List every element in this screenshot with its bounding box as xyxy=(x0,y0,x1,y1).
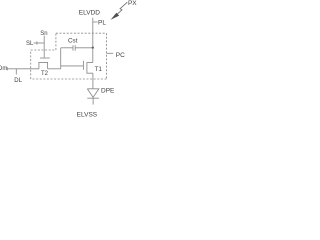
svg-text:PC: PC xyxy=(116,52,125,59)
svg-text:SL: SL xyxy=(26,41,34,47)
svg-text:T2: T2 xyxy=(41,71,49,77)
transistor T1 gate stem wire xyxy=(61,65,84,67)
diode DPE cathode bar xyxy=(87,97,99,99)
box notch vertical xyxy=(55,33,57,50)
wire diode to ELVSS xyxy=(92,98,94,104)
svg-text:Sn: Sn xyxy=(40,31,47,37)
arrow PX pointer xyxy=(114,2,127,17)
wire DL leader xyxy=(15,69,17,75)
box bottom edge xyxy=(31,78,107,80)
wire T2 drain xyxy=(48,68,61,70)
node junction dot xyxy=(92,46,94,48)
box top edge xyxy=(56,32,107,34)
wire scan line Sn vertical xyxy=(43,36,45,58)
box step edge xyxy=(31,49,56,51)
label tick SL xyxy=(36,41,38,44)
svg-text:T1: T1 xyxy=(95,67,103,73)
label tick PL xyxy=(93,21,98,23)
svg-text:Dm: Dm xyxy=(0,66,7,72)
capacitor Cst right plate xyxy=(74,45,76,50)
wire data line Dm xyxy=(7,68,39,70)
wire T1 source to diode xyxy=(92,73,94,89)
wire node riser xyxy=(60,48,62,69)
pixel circuit boundary dashed box PC xyxy=(31,33,107,79)
wire capacitor to PL node xyxy=(75,47,93,49)
capacitor Cst left plate xyxy=(72,45,74,50)
svg-text:ELVDD: ELVDD xyxy=(79,9,100,16)
transistor T1 gate bar xyxy=(82,61,84,70)
label tick Dm xyxy=(6,67,8,70)
svg-text:DL: DL xyxy=(14,78,22,84)
box left edge xyxy=(30,50,32,79)
wire node to capacitor xyxy=(61,47,73,49)
wire SL leader xyxy=(34,42,45,44)
svg-text:DPE: DPE xyxy=(101,88,115,95)
wire power line PL vertical from ELVDD xyxy=(92,18,94,63)
svg-text:PL: PL xyxy=(98,19,106,26)
transistor T2 channel bump xyxy=(39,62,48,68)
transistor T1 channel bump xyxy=(87,63,93,74)
label tick PC xyxy=(107,52,114,54)
svg-text:Cst: Cst xyxy=(68,38,78,45)
transistor T2 gate bar xyxy=(40,57,50,59)
svg-text:ELVSS: ELVSS xyxy=(77,111,98,118)
diode DPE triangle xyxy=(87,89,99,98)
box right edge xyxy=(106,33,108,79)
svg-text:PX: PX xyxy=(128,0,137,7)
